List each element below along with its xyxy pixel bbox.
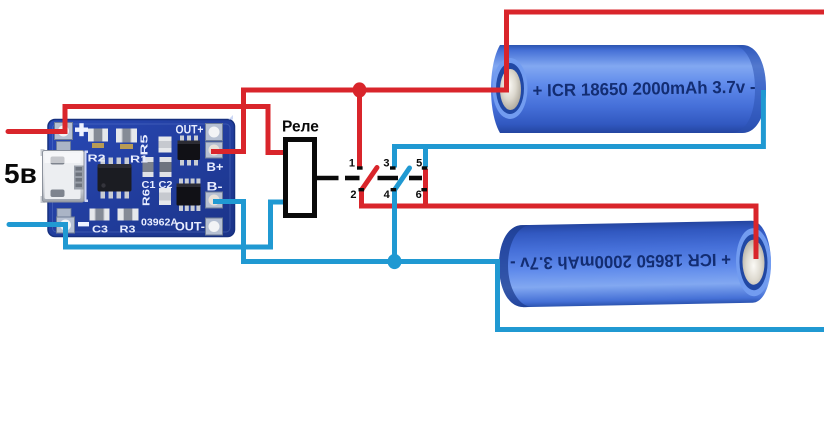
svg-text:R6: R6 [142,188,153,206]
svg-text:R3: R3 [120,224,136,236]
silk bracket right of USB [85,151,89,203]
pad IN+ [55,123,73,140]
silk - [78,222,89,226]
USB J1 [41,149,45,156]
contact 1 [357,166,363,169]
IC U2 TP4056 pins [101,158,130,199]
switch lever S1b [395,168,410,190]
pad small left bottom [57,209,71,218]
node A: red junction [353,82,367,97]
svg-text:03962A: 03962A [141,217,178,229]
smd near R5 [159,137,172,153]
relay K1 [286,140,315,216]
wire B- pad stub [213,202,244,262]
node B: blue junction [388,254,402,269]
wire contact 6 drop [423,169,428,206]
wire contact 5 drop [423,147,428,168]
right pad OUT- [206,218,223,235]
module U1: TP4056 charger board [41,115,235,237]
right pad OUT+ [206,124,223,141]
svg-text:OUT-: OUT- [175,220,205,234]
wire contact 4 drop to junction [392,190,397,262]
smd R top a [88,129,108,142]
silkscreen labels [88,123,224,236]
wire contact 1 drop [357,90,362,167]
contact 4 [391,188,397,191]
IC U3 DW01 pins [180,136,198,166]
IC U4 8205A body [177,184,201,206]
silk + [75,128,88,132]
smd above R3 [118,209,139,221]
smd C1 [143,157,154,177]
contact 2 [359,188,365,191]
battery BT2 - end (left) [498,225,531,308]
wire bottom run to right edge [241,262,824,330]
IC U2 TP4056 body [98,164,132,192]
svg-text:C2: C2 [159,180,173,191]
right pad B+ [206,142,223,158]
wire 5V input - [9,225,271,248]
battery BT2 + cap (right) [735,228,771,297]
pad small left top [57,142,71,151]
smd near R6 [159,188,171,205]
svg-text:1: 1 [349,158,355,170]
corner arrow mark [229,115,234,120]
wire 5V input + [8,107,286,153]
battery BT1 + cap [493,58,528,119]
battery BT1 (top, ICR 18650) [491,45,766,133]
svg-text:R5: R5 [140,134,151,156]
right pad B- [206,192,223,208]
contact 6 [421,188,427,191]
wire top rail to battery + [241,88,509,93]
svg-text:C3: C3 [92,224,108,236]
red wires net V+ [8,12,824,259]
blue wires net GND [9,90,824,330]
wire switch top rail to BT1 - [395,90,764,168]
svg-text:3: 3 [383,158,389,170]
switch lever S1a [362,168,378,191]
svg-text:B-: B- [207,180,223,194]
wire contact 2 to bottom rail to BT2 + [362,188,757,259]
svg-text:Реле: Реле [282,119,319,136]
svg-text:2: 2 [350,189,356,201]
switch contact ticks [357,166,427,191]
svg-text:6: 6 [416,189,422,201]
IC U3 DW01 body [178,141,201,161]
smd C2 [160,157,172,177]
wire OUT+ riser [241,88,246,155]
svg-text:5: 5 [416,158,422,170]
wire to relay coil - [271,202,287,250]
pad IN- [57,217,75,233]
IC U4 8205A pins [179,179,200,212]
svg-text:R2: R2 [88,154,107,165]
svg-text:5в: 5в [4,158,37,189]
switch pin numbers [349,158,422,202]
svg-text:B+: B+ [207,160,224,174]
relay actuator dashed link [317,176,422,181]
svg-text:4: 4 [384,189,391,201]
smd above C3 [90,209,110,221]
PCB [48,120,235,237]
gold pads [92,143,104,148]
smd R top b [116,129,137,143]
svg-text:+ ICR 18650 2000mAh 3.7v -: + ICR 18650 2000mAh 3.7v - [510,250,731,274]
contact 5 [422,166,428,169]
svg-text:+ ICR 18650 2000mAh 3.7v -: + ICR 18650 2000mAh 3.7v - [532,77,755,101]
wire OUT+ pad stub [211,149,244,154]
contact 3 [390,166,396,169]
svg-text:OUT+: OUT+ [176,123,204,137]
wire riser to top line [507,12,825,90]
battery BT2 (bottom, ICR 18650, flipped) [498,220,772,307]
